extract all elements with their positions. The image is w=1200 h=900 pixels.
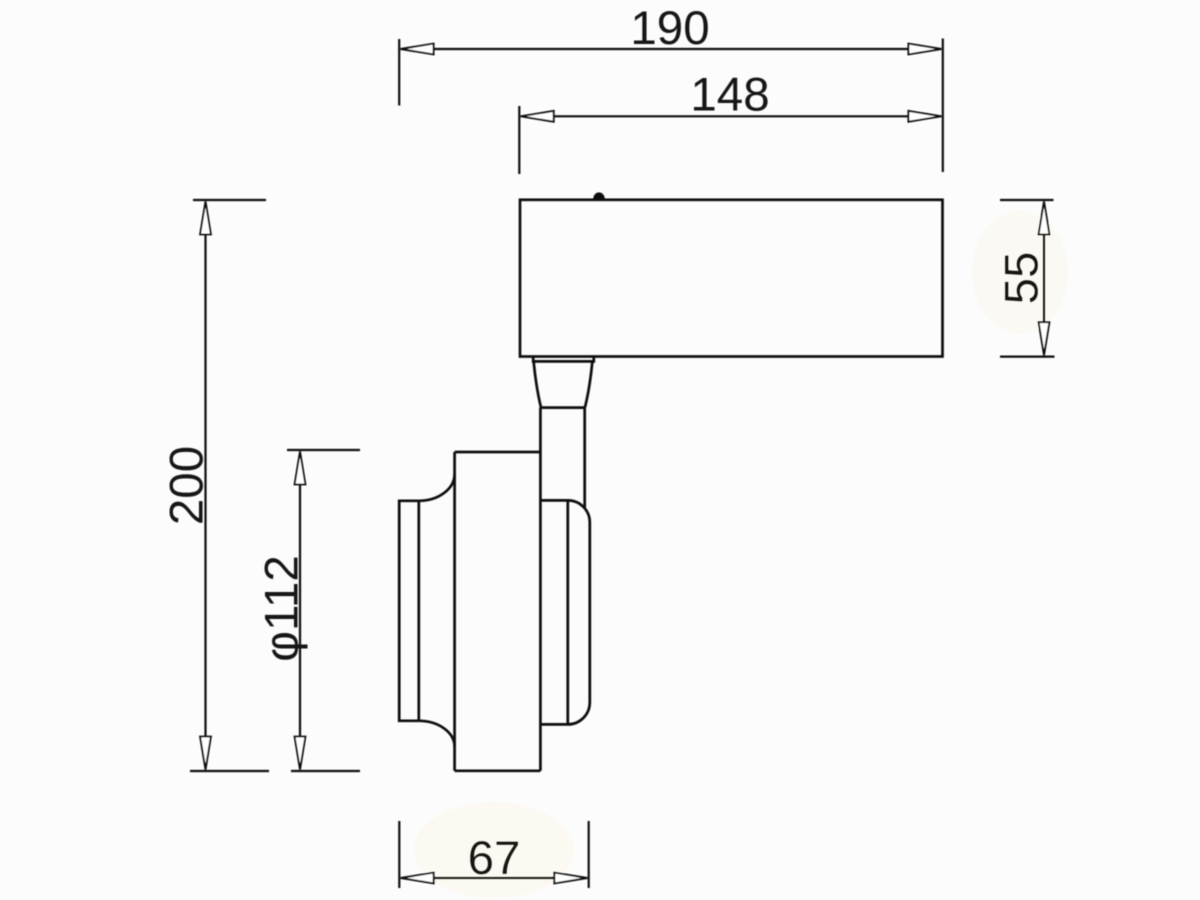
dim 190 dimension line: [433, 48, 909, 50]
dim phi112 bottom arrowhead: [295, 737, 306, 770]
warm paper tint patch near 67 label: [414, 802, 574, 898]
neck flare bottom line: [541, 406, 585, 409]
dim 55 bottom arrowhead: [1039, 322, 1050, 355]
lamp head body: [520, 200, 943, 357]
dim 200 dimension line: [204, 233, 206, 738]
dim 200 top arrowhead: [200, 201, 211, 234]
dim 190 left arrowhead: [401, 44, 434, 55]
top concave fillet: [419, 474, 455, 501]
dim 55 dimension line: [1043, 233, 1045, 324]
wall plate right edge: [417, 501, 420, 721]
wall plate: [399, 501, 419, 721]
svg-text:67: 67: [468, 832, 521, 885]
dim 55 bottom tick: [1000, 356, 1055, 358]
dim 148 left arrowhead: [521, 111, 554, 122]
dim phi112 top arrowhead: [295, 451, 306, 484]
dim 67 right extension line: [588, 821, 590, 888]
neck flare right curve: [585, 361, 593, 407]
svg-text:φ112: φ112: [256, 555, 309, 662]
dim 55 top tick: [1000, 199, 1054, 201]
cover face silhouette line: [566, 500, 569, 724]
warm paper tint patch near 55 label: [972, 210, 1068, 334]
bottom concave fillet: [419, 721, 455, 747]
dim phi112 bottom tick: [291, 770, 360, 772]
dim 67 left arrowhead: [401, 873, 434, 884]
dim phi112 top tick: [287, 449, 360, 451]
dim 190 left extension line: [398, 39, 400, 106]
dim 200 bottom tick: [190, 770, 269, 772]
svg-text:190: 190: [630, 2, 709, 55]
dim 148 right arrowhead: [908, 111, 941, 122]
dim 67 right arrowhead: [554, 873, 587, 884]
svg-text:55: 55: [996, 252, 1049, 305]
dim phi112 dimension line: [299, 483, 301, 738]
bracket cover outline: [541, 500, 590, 724]
svg-text:200: 200: [161, 446, 214, 525]
dim 148 dimension line: [553, 115, 909, 117]
bracket cylinder left edge: [453, 452, 456, 771]
dim 200 top tick: [193, 199, 266, 201]
neck flare left curve: [534, 361, 541, 407]
dim 200 bottom arrowhead: [200, 737, 211, 770]
dim 67 dimension line: [433, 877, 555, 879]
svg-text:148: 148: [690, 69, 769, 122]
stem tube right edge: [583, 408, 586, 509]
button bump on head top: [594, 193, 604, 199]
neck collar: [533, 357, 594, 362]
dim 148 left extension line: [518, 106, 520, 174]
bracket cylinder bottom edge: [455, 769, 541, 772]
dim 190 right arrowhead: [908, 44, 941, 55]
bracket cylinder top edge: [455, 451, 541, 454]
dim 190/148 right extension line: [942, 39, 944, 173]
stem tube left edge / cylinder right edge: [539, 408, 542, 771]
dim 67 left extension line: [398, 821, 400, 888]
dim 55 top arrowhead: [1039, 201, 1050, 234]
